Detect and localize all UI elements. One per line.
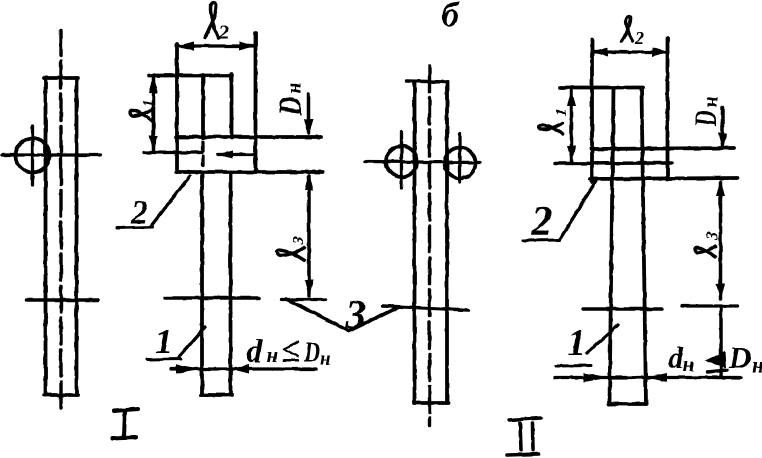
figure b: dn right arrow bbox=[231, 365, 249, 374]
figure b: collar top edge bbox=[149, 74, 232, 78]
figure II: dn dimension line bbox=[555, 376, 741, 379]
figure II: collar left edge bbox=[590, 40, 594, 182]
figure II: tube right wall bbox=[642, 88, 647, 404]
figure b: small arrow to tube axis bbox=[218, 153, 254, 156]
figure II: leader line of label 1 bbox=[587, 325, 618, 353]
figure b: l2 left arrow bbox=[177, 42, 194, 51]
figure II: l2 right arrow bbox=[652, 48, 668, 57]
figure I: tube centerline bbox=[59, 30, 62, 412]
svg-text:2: 2 bbox=[218, 22, 229, 44]
figure I: tube top edge bbox=[44, 76, 78, 80]
figure b: Dn upper arrow line bbox=[307, 94, 311, 133]
figure I: tube left wall bbox=[44, 78, 48, 395]
figure II: label l3 (rotated) bbox=[695, 231, 722, 257]
svg-text:1: 1 bbox=[141, 100, 157, 108]
figure b: leader line of label 1 bbox=[179, 327, 205, 357]
svg-text:D: D bbox=[687, 111, 723, 128]
svg-text:н: н bbox=[320, 349, 331, 370]
figure b: l3 dimension line bbox=[307, 176, 311, 296]
svg-text:2: 2 bbox=[531, 199, 553, 245]
tube a: right circle crosshair bbox=[458, 134, 461, 182]
figure II: collar upper shoulder line bbox=[591, 148, 734, 149]
figure b: l3 top arrow bbox=[305, 173, 314, 190]
figure I: vertical crosshair of circle bbox=[31, 126, 34, 185]
figure b: tube bottom edge bbox=[201, 393, 232, 397]
svg-text:2: 2 bbox=[634, 28, 644, 48]
callout 3: right chevron stroke bbox=[349, 308, 397, 331]
figure b: tube right wall upper bbox=[230, 74, 234, 138]
svg-text:3: 3 bbox=[345, 291, 367, 337]
figure b: l2 dimension line bbox=[177, 44, 255, 47]
svg-text:D: D bbox=[728, 340, 751, 375]
figure b: label l2 bbox=[205, 3, 218, 38]
svg-text:н: н bbox=[700, 96, 722, 107]
tube a: bottom edge bbox=[414, 401, 448, 405]
figure b: tube left wall upper bbox=[201, 75, 205, 138]
figure b: tube right wall lower bbox=[229, 172, 233, 395]
tube a: left boss circle bbox=[386, 146, 417, 177]
callout 3: left chevron stroke bbox=[286, 299, 349, 331]
figure b: leader line of label 2 bbox=[151, 176, 190, 226]
figure b: l3 bottom arrow bbox=[305, 280, 314, 297]
figure II: l1 top arrow bbox=[567, 90, 576, 106]
figure II: dn left arrow bbox=[584, 373, 610, 382]
svg-text:н: н bbox=[267, 343, 279, 367]
figure b: label l3 (rotated) bbox=[277, 237, 307, 261]
tube a: top edge bbox=[407, 81, 447, 82]
figure b: l1 top arrow bbox=[149, 76, 158, 93]
figure b: break line bbox=[165, 296, 259, 300]
figure II: l2 left arrow bbox=[592, 48, 608, 57]
figure II: roman numeral II label bbox=[507, 418, 541, 455]
tube a: left circle crosshair bbox=[400, 132, 403, 188]
tube a: left wall bbox=[413, 82, 417, 403]
tube a: break line bbox=[383, 306, 468, 310]
figure II: tube left wall bbox=[610, 88, 614, 404]
svg-text:н: н bbox=[752, 352, 762, 377]
figure II: l1 bottom arrow bbox=[567, 146, 576, 162]
figure b: l2 right arrow bbox=[239, 42, 256, 51]
tube a: right wall bbox=[445, 82, 449, 403]
figure II: underline of label 2 bbox=[523, 239, 560, 243]
figure b: collar mid shoulder line bbox=[176, 135, 321, 139]
figure II: dn right arrow bbox=[646, 373, 667, 382]
figure b: l1 lower extension line bbox=[144, 151, 202, 154]
svg-text:2: 2 bbox=[130, 195, 148, 232]
svg-text:1: 1 bbox=[567, 322, 586, 364]
svg-text:d: d bbox=[246, 334, 263, 370]
tube a: centerline bbox=[428, 66, 431, 425]
figure II: tube bottom edge bbox=[609, 402, 646, 406]
svg-text:1: 1 bbox=[554, 109, 570, 117]
svg-text:1: 1 bbox=[155, 322, 173, 361]
figure b: label l1 (rotated) bbox=[130, 100, 156, 122]
figure b: tube left wall lower bbox=[200, 172, 204, 395]
figure b: label Dn (rotated) bbox=[273, 82, 309, 116]
figure I: tube bottom edge bbox=[44, 393, 78, 397]
tube a: right boss circle bbox=[445, 148, 476, 179]
figure b: underline of label 1 bbox=[147, 358, 181, 362]
figure II: collar lower inner line bbox=[555, 161, 672, 165]
figure b: collar left edge bbox=[175, 44, 179, 172]
tube a: horizontal centerline bbox=[365, 162, 480, 163]
svg-text:б: б bbox=[442, 0, 461, 34]
figure II: collar right edge bbox=[666, 38, 670, 179]
figure II: label Dn (rotated) bbox=[687, 96, 723, 127]
figure II: Dn upper arrow line bbox=[721, 107, 725, 147]
figure II: label l1 (rotated) bbox=[539, 109, 569, 135]
figure II: collar top edge bbox=[560, 86, 643, 90]
figure II: break line bbox=[583, 307, 662, 311]
figure II: l3 top arrow bbox=[716, 180, 725, 196]
figure II: l1 dimension line bbox=[570, 89, 574, 162]
figure b: dn left arrow bbox=[176, 365, 203, 374]
svg-text:≤: ≤ bbox=[281, 331, 300, 370]
figure b: l1 dimension line bbox=[152, 75, 156, 152]
figure II: l3 dimension line bbox=[719, 182, 723, 299]
figure b: underline of label 2 bbox=[117, 227, 153, 228]
figure II: collar bottom edge bbox=[590, 178, 737, 179]
svg-text:D: D bbox=[303, 337, 320, 369]
figure II: l3 bottom arrow bbox=[716, 284, 725, 300]
svg-text:3: 3 bbox=[703, 231, 722, 241]
figure b: tube left wall hidden dashes bbox=[201, 142, 204, 170]
figure b: l1 bottom arrow bbox=[149, 136, 158, 152]
figure II: l3 lower reference line bbox=[682, 304, 737, 307]
figure II: underline of label 1 bbox=[556, 364, 591, 368]
figure b: dn dimension line bbox=[171, 367, 316, 370]
svg-text:н: н bbox=[282, 82, 306, 94]
figure I: break line bbox=[26, 298, 98, 302]
figure I: horizontal centerline through circle bbox=[2, 153, 100, 156]
figure b: collar bottom edge bbox=[176, 170, 323, 174]
figure II: leader line of label 2 bbox=[560, 181, 596, 239]
figure II: label l2 bbox=[622, 17, 633, 41]
figure b: l3 lower reference line bbox=[281, 298, 326, 301]
svg-text:D: D bbox=[273, 96, 309, 116]
svg-text:3: 3 bbox=[291, 237, 308, 246]
figure I: tube right wall bbox=[75, 78, 79, 395]
figure b: collar right edge bbox=[254, 33, 258, 172]
figure I: boss circle bbox=[16, 139, 50, 173]
figure II: l2 dimension line bbox=[592, 50, 668, 53]
figure II: vertical extension to dn line bbox=[719, 308, 723, 377]
svg-text:н: н bbox=[683, 352, 695, 376]
figure I: roman numeral I label bbox=[112, 409, 138, 438]
